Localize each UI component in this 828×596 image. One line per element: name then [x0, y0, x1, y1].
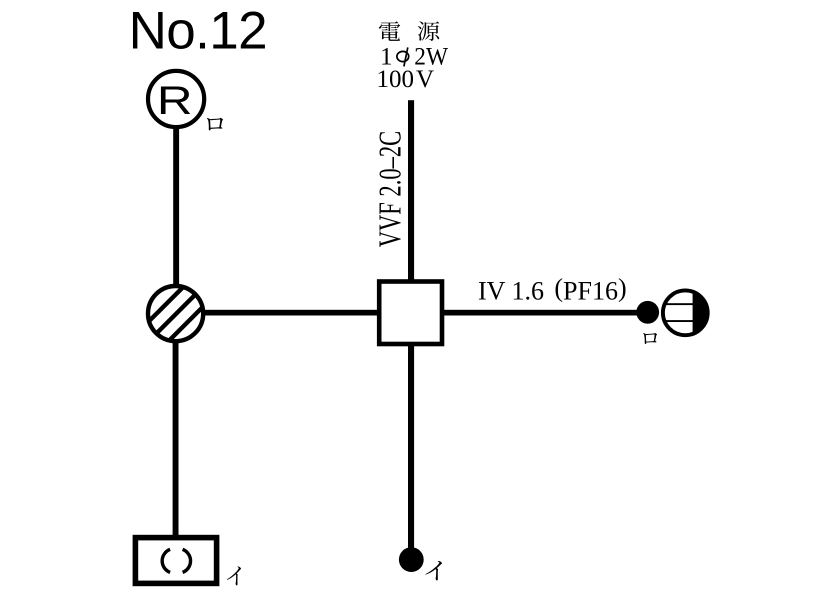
wire: pull box right to lamp (IV in PF16): [444, 310, 638, 316]
hatch lines inside outlet box: [145, 283, 207, 345]
wire: outlet box right to pull box: [204, 310, 378, 316]
wire: receptacle down to outlet box: [173, 127, 179, 287]
lamp horizontal bar lower: [660, 320, 694, 322]
outlet box (hatched circle): [148, 286, 203, 341]
wire: outlet box down to ceiling rosette: [173, 341, 179, 536]
pull box (square): [379, 282, 442, 345]
svg-text:IV 1.6 (PF16): IV 1.6 (PF16): [478, 273, 627, 305]
kanji 源 (source): [418, 21, 440, 40]
wire: pull box down to pendant dot: [408, 344, 414, 554]
outdoor lamp (circle with bars, right side filled): [663, 290, 708, 335]
label 1phi2W: phi symbol: [397, 47, 409, 66]
lamp receptacle R (circle): [148, 71, 204, 127]
katakana ロ label for lamp: [643, 333, 657, 344]
pendant terminal (filled dot): [399, 547, 424, 572]
parentheses inside rosette: [162, 549, 190, 572]
lamp junction dot: [636, 301, 659, 324]
katakana ロ label for receptacle: [207, 118, 223, 131]
svg-text:100V: 100V: [377, 66, 435, 93]
svg-text:VVF 2.0–2C: VVF 2.0–2C: [372, 131, 408, 248]
ceiling rosette (rectangle with parentheses): [135, 538, 216, 584]
katakana イ label for pendant: [425, 561, 442, 580]
wire: power source down to pull box: [408, 100, 414, 281]
katakana イ label for rosette: [227, 567, 241, 586]
kanji 電 (power): [379, 21, 400, 41]
svg-text:No.12: No.12: [129, 2, 267, 61]
lamp horizontal bar upper: [660, 303, 694, 305]
svg-text:R: R: [157, 80, 193, 123]
lamp filled right segment: [693, 288, 713, 338]
